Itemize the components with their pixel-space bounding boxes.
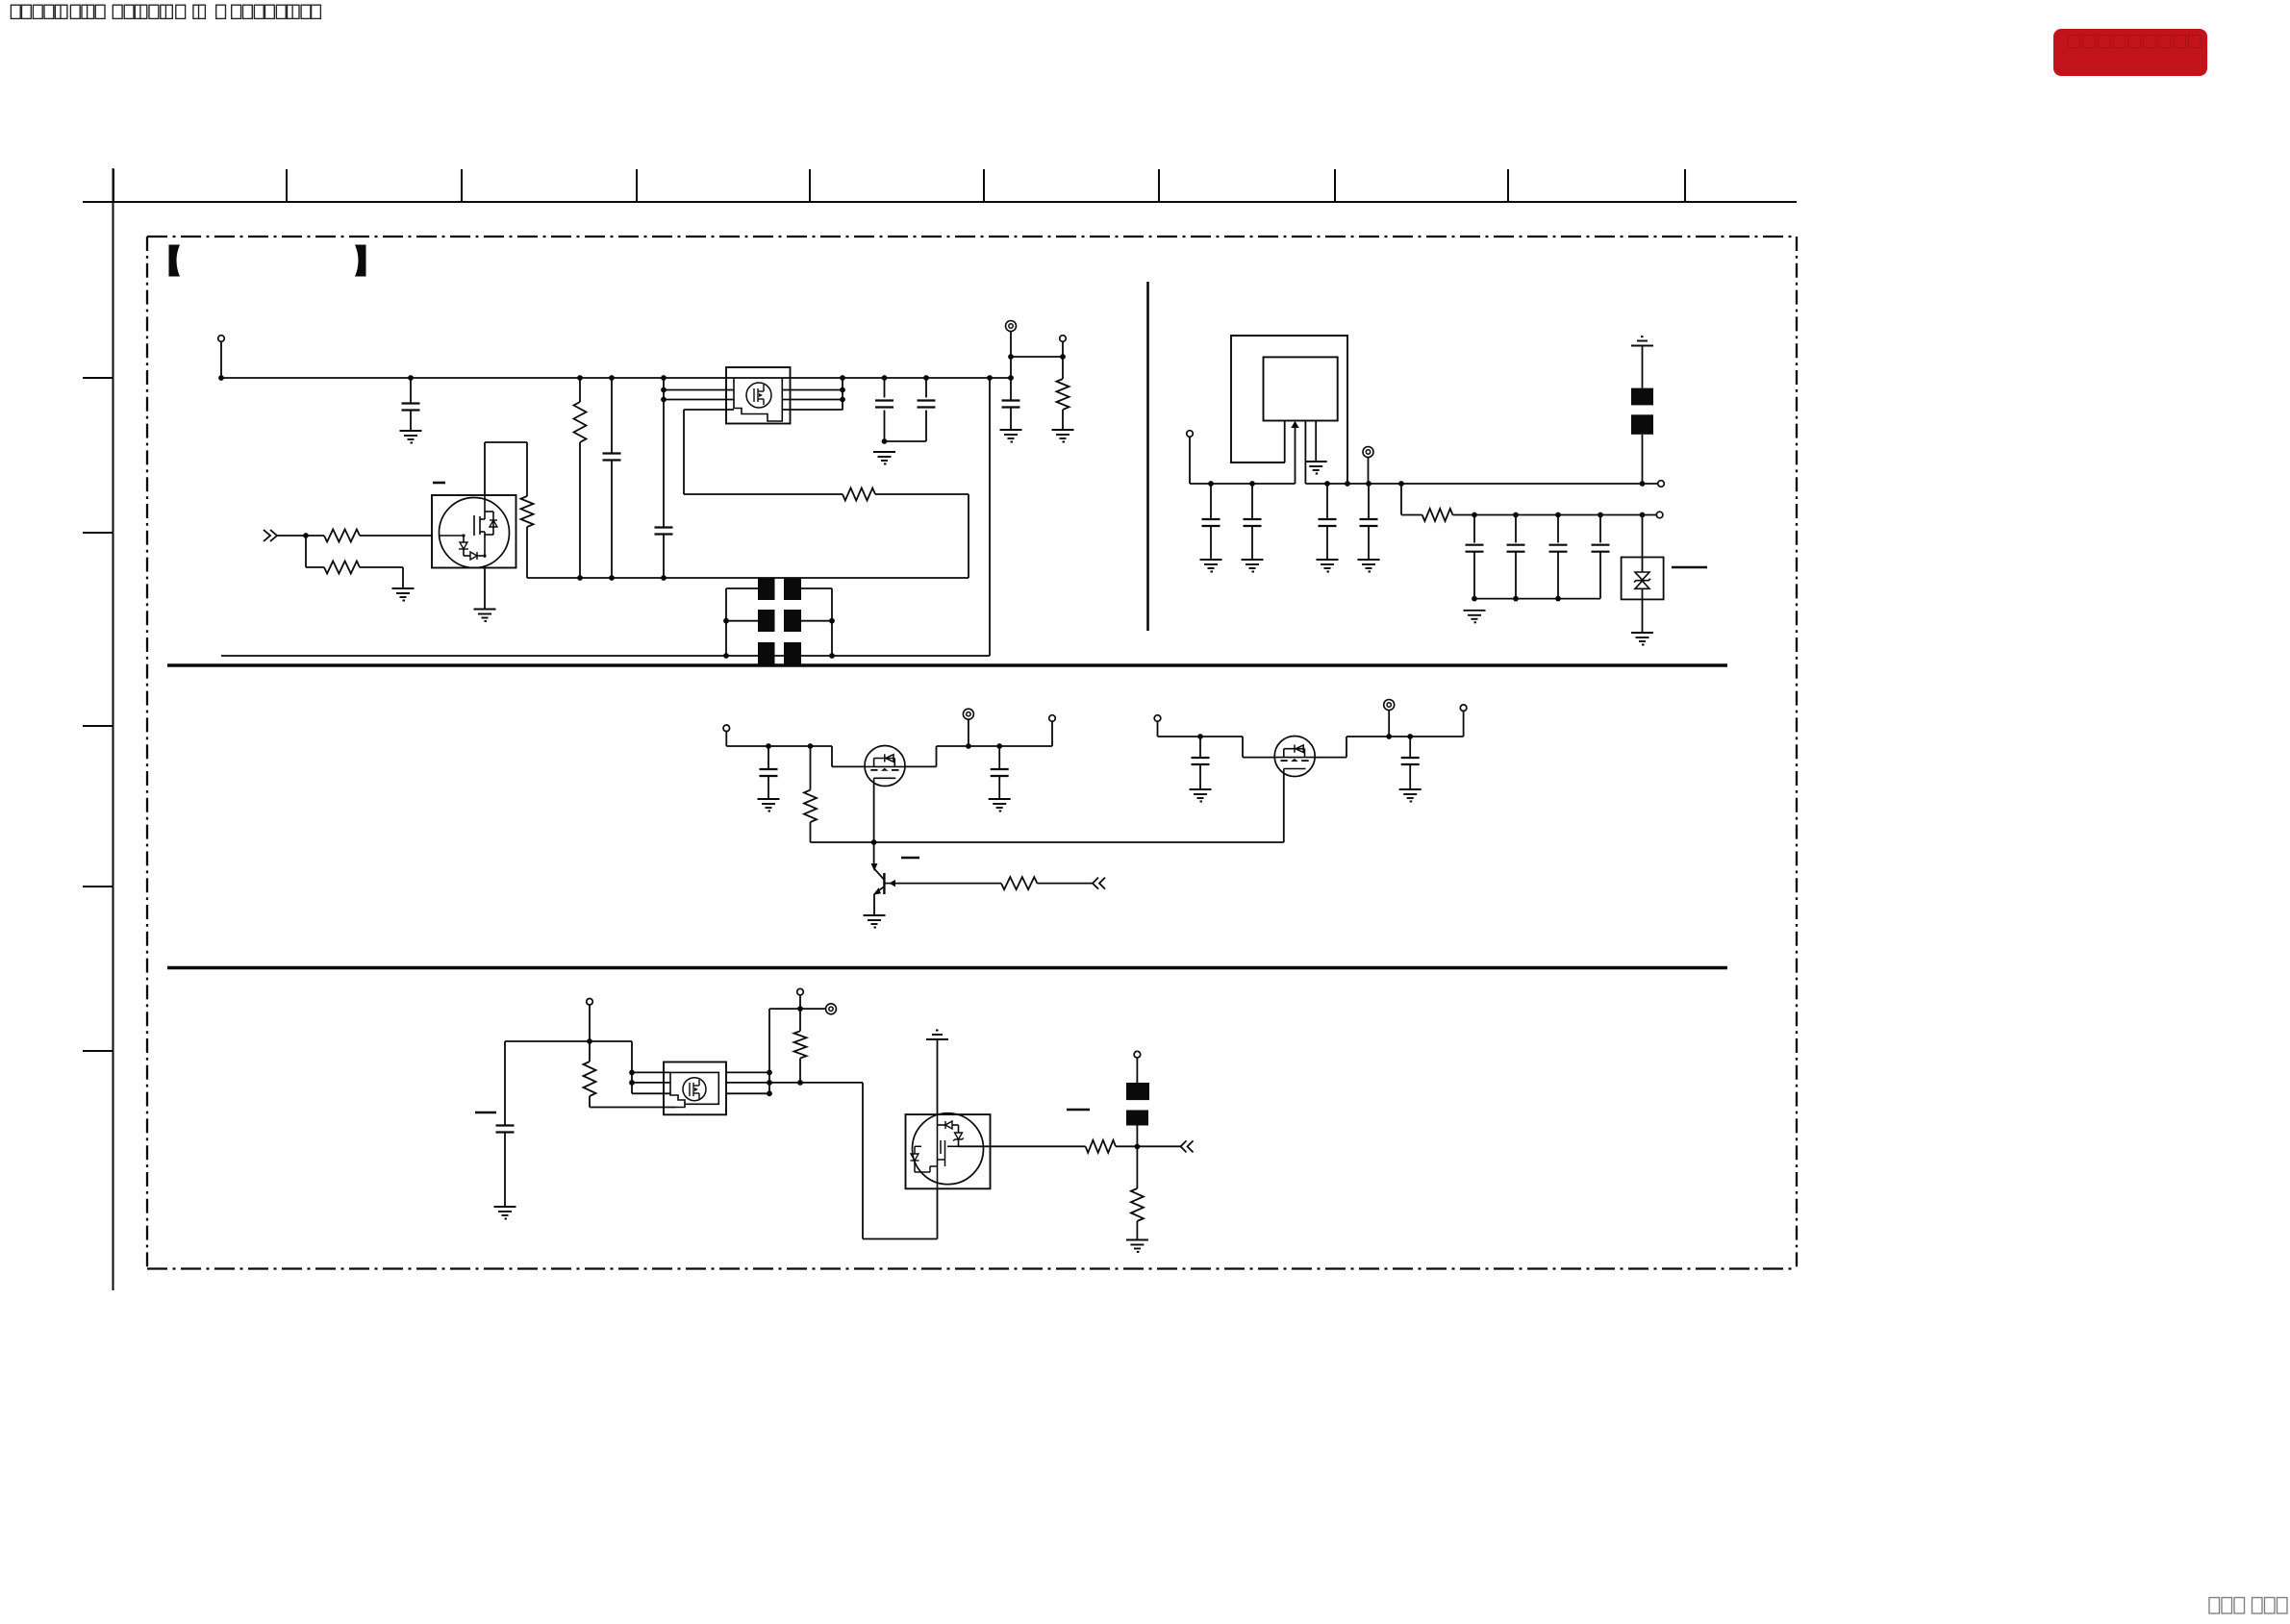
transistor Q3 collector arrow (871, 863, 878, 871)
transistor Q2 circle (865, 746, 905, 787)
dash-dot border top (147, 236, 1797, 237)
ferrite bead FB2b (1126, 1111, 1148, 1126)
junction Q5 r3 (767, 1090, 772, 1096)
red button (2053, 29, 2207, 76)
junction C11 (1472, 512, 1477, 518)
wire bus right leg (989, 378, 991, 656)
terminal J9 (1049, 715, 1056, 722)
wire bottom return (221, 655, 990, 657)
ruler top line (83, 201, 1797, 203)
junction Q5 pin1 stub (629, 1070, 635, 1076)
wire Q4 right (1315, 757, 1346, 759)
wire C8 bottom (1251, 526, 1253, 560)
transistor Q3 (873, 869, 895, 895)
wire Q2 right (905, 765, 937, 767)
junction bus/C5 (923, 375, 929, 381)
wire C18 drop (504, 1041, 506, 1126)
wire R3 to net A (526, 527, 528, 578)
wire R6 top (1062, 357, 1064, 379)
wire J13 down (589, 1005, 591, 1041)
transistor Q2 symbol (866, 754, 905, 783)
capacitor C18 (496, 1126, 515, 1133)
wire Q1 pin3 right (782, 399, 843, 401)
wire rail to J9 (1051, 721, 1053, 746)
ground C10 (1358, 560, 1380, 572)
terminal J10 (1154, 715, 1161, 722)
wire feedback top a (684, 493, 843, 495)
terminal J2 (1006, 321, 1017, 332)
tvs diode D1 symbol (1634, 572, 1650, 588)
transformer T1 core block a (758, 578, 775, 600)
junction lowrail c (1555, 596, 1561, 602)
wire bottom feed (505, 1040, 632, 1042)
transistor Q6 circle (913, 1113, 984, 1185)
wire Q3 emitter (873, 894, 875, 915)
wire C12 bottom (1515, 552, 1517, 599)
wire C17 top (1409, 737, 1411, 758)
wire Q4 jog up (1346, 737, 1347, 758)
junction rail/J11 (1386, 734, 1392, 739)
wire RF rail (1305, 483, 1657, 485)
ferrite bead FB2a (1126, 1083, 1149, 1100)
junction rail/J8 (966, 743, 971, 749)
junction stub Q1-2 (661, 387, 667, 393)
wire feedback left drop (683, 410, 685, 494)
wire net A (527, 577, 969, 579)
capacitor C14 (760, 769, 778, 776)
ferrite bead FB1a (1631, 388, 1653, 406)
ground C18 (494, 1207, 516, 1219)
transistor Q6 body (906, 1114, 991, 1188)
junction R4/net A (577, 575, 583, 581)
junction C4/C5 gnd (882, 438, 888, 444)
junction lowrail a (1472, 596, 1477, 602)
transistor Q5 inner frame (670, 1072, 718, 1107)
junction bus/J1 (218, 375, 224, 381)
terminal J13 (587, 999, 593, 1006)
wire Q5 pin3 right (726, 1092, 769, 1094)
ferrite bead FB1b (1631, 414, 1653, 435)
resistor R1 (324, 530, 360, 542)
junction Q1 p3 (840, 397, 845, 403)
wire R4 bottom (579, 442, 581, 578)
junction J13 node (587, 1038, 592, 1044)
transistor Q1 inner frame (734, 378, 782, 421)
label D1 (tofu dash) (1672, 566, 1707, 568)
ruler top tick 6 (983, 169, 985, 202)
junction C7 (1208, 481, 1214, 487)
wire Q3 collector (873, 842, 875, 864)
wire J11 down (1388, 711, 1390, 737)
ground C17 (1399, 789, 1422, 802)
capacitor C8 (1244, 519, 1262, 526)
wire R8 bottom (810, 822, 812, 842)
ruler left tick 1 (83, 377, 113, 379)
wire base to connector (1037, 883, 1093, 885)
ruler left line (113, 168, 114, 1290)
wire C14 top (1599, 515, 1601, 543)
resistor R5 (843, 488, 875, 501)
ground C7 (1200, 560, 1222, 572)
wire R10 top (589, 1041, 591, 1062)
junction bus/C3 (661, 375, 667, 381)
wire C11 bottom (1473, 552, 1475, 599)
junction shield/rail (1345, 481, 1350, 487)
terminal J4 (1187, 431, 1194, 437)
wire R7 stub (1401, 514, 1422, 516)
transistor Q4 circle (1274, 737, 1315, 777)
op-amp U1 circle (440, 498, 510, 568)
wire feedback right drop (968, 494, 969, 578)
wire C16 bottom (1199, 764, 1201, 789)
wire Q1 pin2 stub (664, 389, 734, 391)
wire Q6 gate out (959, 1145, 1086, 1147)
thick separator line 1 (167, 663, 1727, 667)
ground C8 (1242, 560, 1264, 572)
terminal J3 (1060, 336, 1067, 342)
wire antenna left net (1190, 483, 1296, 485)
wire C6 bottom (1010, 408, 1012, 431)
capacitor C16 (1192, 758, 1210, 764)
wire J14 down (799, 995, 801, 1009)
ground C15 (989, 799, 1011, 812)
terminal J5 (1658, 481, 1665, 487)
terminal J11 (1384, 700, 1395, 711)
junction C14 (1598, 512, 1603, 518)
ground C14 (758, 799, 780, 812)
terminal J15 (826, 1004, 837, 1014)
transistor Q6 internals (911, 1114, 965, 1188)
junction R11/row2 (797, 1080, 803, 1086)
capacitor C17 (1401, 758, 1420, 764)
wire mid-left rail (726, 745, 832, 747)
wire Q3 base (895, 883, 1001, 885)
wire C1 top (410, 378, 412, 404)
wire gate jog down (831, 746, 833, 766)
wire J3 down (1062, 341, 1064, 357)
transformer T1 core block c (758, 610, 775, 632)
wire R11 bottom (799, 1059, 801, 1083)
ground Q6 top (926, 1031, 948, 1040)
junction rail/D1 (1640, 512, 1646, 518)
wire vcc node (769, 1008, 825, 1010)
ground FB1 top (1631, 337, 1653, 346)
capacitor C5 (918, 401, 936, 408)
wire C18 bottom (504, 1133, 506, 1207)
ruler top tick 4 (636, 169, 638, 202)
connector chevron input (264, 530, 270, 541)
ruler top tick 8 (1334, 169, 1336, 202)
junction rail/R7 (1398, 481, 1404, 487)
ruler top tick 2 (286, 169, 288, 202)
ground low rail (1464, 611, 1486, 623)
junction bus right leg (987, 375, 993, 381)
ruler top tick 7 (1158, 169, 1160, 202)
wire Q5 to vcc corner (768, 1009, 770, 1072)
ground R6 (1052, 430, 1074, 442)
wire R10 to Q5 pin4 (590, 1107, 675, 1109)
ground X1 pin D (1305, 462, 1327, 474)
wire C7 top (1210, 484, 1212, 519)
ruler left tick 5 (83, 1050, 113, 1052)
wire C2 bottom (611, 461, 613, 579)
capacitor C7 (1202, 519, 1220, 526)
wire Q1 pin3 stub (664, 399, 734, 401)
wire T1 stub tl (726, 587, 758, 589)
junction T1 right mid (829, 618, 835, 624)
wire C10 top (1368, 484, 1370, 519)
terminal J6 (1656, 512, 1663, 518)
junction rail/C16 (1197, 734, 1203, 739)
junction stub Q1-3 (661, 397, 667, 403)
wire J8 down (968, 719, 969, 746)
wire R4 top (579, 378, 581, 402)
capacitor C13 (1549, 545, 1568, 552)
ruler left tick 3 (83, 725, 113, 727)
junction bus end (1008, 375, 1014, 381)
junction rail/C15 (996, 743, 1002, 749)
wire C5 bottom (925, 411, 927, 442)
antenna module X1 body (1264, 357, 1338, 420)
wire Q1 pin tie vertical (842, 378, 843, 410)
junction C8 (1249, 481, 1255, 487)
wire C5 to C4 gnd (885, 440, 927, 442)
label U1 (tofu dash) (433, 482, 445, 485)
resistor R7 (1422, 509, 1453, 521)
wire C9 top (1326, 484, 1328, 519)
junction J2 node (1008, 354, 1014, 360)
resistor R8 (804, 790, 817, 822)
junction Q5 r1 (767, 1070, 772, 1076)
connector chevron out (1181, 1140, 1187, 1152)
wire C10 bottom (1368, 526, 1370, 560)
thick separator line 2 (167, 966, 1727, 970)
tvs diode D1 box (1622, 558, 1664, 600)
capacitor C9 (1319, 519, 1337, 526)
junction C3/net A (661, 575, 667, 581)
junction C9 (1324, 481, 1330, 487)
wire gate to Q4 (1243, 757, 1274, 759)
wire D1 top (1642, 515, 1644, 573)
wire C15 bottom (998, 776, 1000, 799)
ground Q3 (864, 915, 886, 928)
ruler left tick 2 (83, 532, 113, 534)
capacitor C14 (1592, 545, 1610, 552)
wire Q1 pin2 right (782, 389, 843, 391)
wire gate to Q2 (832, 765, 866, 767)
wire Q5 pin2 right (726, 1082, 863, 1084)
ground C4 (873, 452, 895, 464)
wire C16 top (1199, 737, 1201, 758)
junction drain/rail (871, 839, 877, 845)
wire C13 top (1557, 515, 1559, 543)
capacitor C15 (991, 769, 1009, 776)
wire FB1 top (1642, 346, 1644, 388)
wire Q5 pin1 right (726, 1071, 769, 1073)
wire C1 bottom (410, 411, 412, 432)
wire C11 top (1473, 515, 1475, 543)
wire C4 top (884, 378, 886, 398)
connector chevron base 2 (1099, 878, 1105, 889)
junction rail/C14 (766, 743, 771, 749)
junction J3 node (1060, 354, 1066, 360)
wire T1 stub tr (801, 587, 832, 589)
ground C9 (1317, 560, 1339, 572)
wire Q4 source down (1283, 773, 1285, 842)
junction lowrail b (1513, 596, 1519, 602)
wire C2 top (611, 378, 613, 454)
junction Q1 bus (840, 375, 845, 381)
wire R1 to U1 (360, 535, 432, 537)
terminal J7 (723, 725, 730, 732)
wire R12 to node (1116, 1145, 1181, 1147)
junction C10 (1366, 481, 1371, 487)
capacitor C3 (655, 528, 673, 535)
transistor Q1 body (726, 367, 791, 424)
resistor R3 (521, 496, 534, 527)
wire gate jog down 2 (1242, 737, 1244, 758)
wire T1 bracket right (831, 588, 833, 656)
junction vcc node (797, 1006, 803, 1012)
transistor Q-U1 internals (440, 496, 497, 560)
wire J2 down (1010, 332, 1012, 378)
transformer T1 core block b (784, 578, 801, 600)
ground R13 (1126, 1240, 1148, 1253)
junction bus/C2 (609, 375, 615, 381)
antenna shield loop (1231, 336, 1347, 484)
junction T1 right low (829, 653, 835, 659)
resistor R11 (794, 1031, 807, 1058)
text header (missing-glyph tofu boxes) (11, 5, 320, 18)
left lenticular bracket (169, 245, 181, 277)
connector chevron base (1093, 878, 1098, 889)
wire R2 gnd drop (402, 567, 404, 588)
ruler top tick 3 (461, 169, 463, 202)
wire row2 drop (862, 1083, 864, 1239)
connector chevron input 2 (270, 530, 277, 541)
wire X1 pin B (1295, 427, 1296, 484)
wire FB1 bottom (1642, 435, 1644, 484)
ground R2 (392, 588, 415, 601)
wire Q1 pin4 left (684, 409, 734, 411)
junction Q1 p2 (840, 387, 845, 393)
ruler top tick 1 (113, 169, 114, 202)
wire J7 down (725, 732, 727, 746)
wire C14 bottom (768, 776, 769, 799)
ruler top tick 10 (1684, 169, 1686, 202)
ground C1 (400, 431, 422, 443)
transistor Q5 body (664, 1062, 726, 1115)
transistor Q4 symbol (1275, 745, 1315, 774)
terminal J1 (218, 336, 225, 342)
wire T1 stub ml (726, 620, 758, 622)
dash-dot border right (1796, 237, 1798, 1269)
wire U1 top loop (485, 441, 527, 443)
wire X1 pin D (1315, 421, 1317, 462)
wire FB2 top (1136, 1058, 1138, 1083)
capacitor C2 (603, 454, 621, 461)
wire C9 bottom (1326, 526, 1328, 560)
wire C17 bottom (1409, 764, 1411, 789)
wire row2 bottom run (863, 1238, 938, 1240)
junction bus/C1 (408, 375, 414, 381)
transistor Q5 circle (683, 1078, 706, 1101)
right lenticular bracket (355, 245, 366, 277)
wire main bus VIN (221, 377, 1011, 379)
wire Q5 tie vertical (768, 1072, 770, 1093)
junction bus/C4 (882, 375, 888, 381)
junction T1 left mid (723, 618, 729, 624)
ground C16 (1190, 789, 1212, 802)
section divider line (1146, 282, 1149, 631)
junction input node (303, 533, 309, 538)
junction FB2 node (1135, 1144, 1141, 1150)
terminal J8 (963, 709, 973, 719)
antenna feed arrow (1291, 421, 1298, 428)
capacitor C4 (875, 401, 893, 408)
ground U1 (474, 610, 496, 622)
dash-dot border left (146, 237, 148, 1269)
resistor R9 (1001, 877, 1037, 889)
wire Q6 source up (937, 1188, 939, 1238)
junction rail/C17 (1407, 734, 1413, 739)
terminal J17 (1363, 447, 1373, 458)
wire rail to J12 (1463, 712, 1465, 737)
resistor R2 (324, 562, 360, 574)
junction bus/R4 (577, 375, 583, 381)
wire Q5 pin1 stub (632, 1071, 670, 1073)
ground C6 (1000, 430, 1022, 442)
terminal J12 (1460, 705, 1467, 712)
wire Q1 pin4 right (782, 409, 843, 411)
junction C12 (1513, 512, 1519, 518)
wire R13 top (1136, 1146, 1138, 1188)
wire J2 to J3 (1011, 356, 1063, 358)
wire R10 bottom (589, 1096, 591, 1108)
wire Q6 drain (937, 1039, 939, 1114)
transistor Q1 circle (746, 383, 771, 408)
wire J17 down (1368, 458, 1370, 485)
wire C14 bottom (1599, 552, 1601, 599)
red button label (tofu boxes) (2068, 36, 2201, 48)
wire low gnd rail (1474, 598, 1600, 600)
ruler top tick 9 (1507, 169, 1509, 202)
op-amp U1 body (432, 495, 516, 568)
wire R2 to gnd corner (360, 566, 403, 568)
junction FB1/rail (1640, 481, 1646, 487)
resistor R6 (1057, 379, 1070, 410)
junction Q5 r2 (767, 1080, 772, 1086)
page number (tofu boxes) (2209, 1598, 2287, 1614)
wire mid-right rail R (1346, 736, 1464, 737)
wire input (277, 535, 324, 537)
wire low rail (1453, 514, 1657, 516)
junction rail/R8 (808, 743, 814, 749)
wire C15 top (998, 746, 1000, 769)
transformer T1 core block e (758, 642, 775, 664)
wire D1 bottom (1642, 588, 1644, 632)
wire C14 top (768, 746, 769, 769)
wire loop down to R3 (526, 442, 528, 496)
wire U1 top pin up (484, 442, 486, 495)
wire J1 to bus (220, 341, 222, 378)
terminal J16 (1134, 1051, 1141, 1058)
wire input stub R2 (306, 566, 324, 568)
wire C4 bottom (884, 411, 886, 442)
wire mid long rail (811, 841, 1284, 843)
wire J4 down (1189, 437, 1191, 484)
wire feed jog down (631, 1041, 633, 1093)
